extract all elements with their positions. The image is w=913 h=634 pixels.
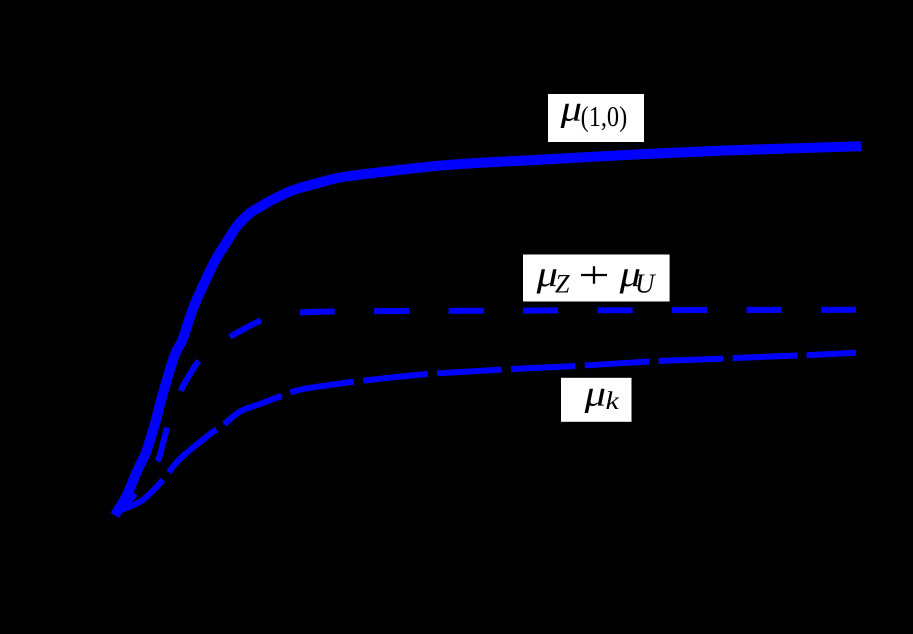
svg-text:U: U (635, 269, 656, 299)
label box mu_k (561, 373, 632, 422)
svg-text:(1,0): (1,0) (581, 102, 628, 133)
svg-text:Z: Z (555, 270, 570, 299)
curve mu_k long-dashed (119, 353, 856, 511)
curve mu_(1,0) solid (118, 146, 857, 511)
label box mu_(1,0) (548, 89, 644, 142)
svg-text:k: k (606, 386, 620, 414)
svg-text:μ: μ (560, 89, 582, 129)
curve mu_Z + mu_U dashed (119, 310, 856, 509)
svg-text:μ: μ (584, 373, 606, 413)
label box mu_Z + mu_U (523, 254, 670, 302)
